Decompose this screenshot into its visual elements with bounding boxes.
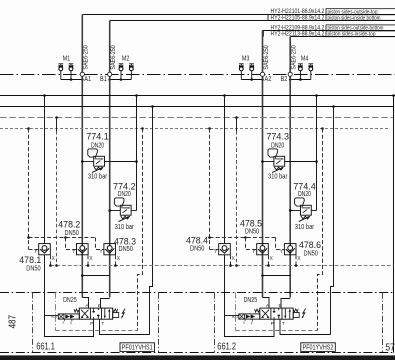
logic valve 478.2 label — [58, 219, 80, 237]
relief valve 774.3 pilot line — [268, 149, 278, 159]
cylinder port A2 — [260, 72, 271, 83]
cylinder lines merge left — [81, 274, 110, 277]
line A1 vertical — [81, 76, 83, 297]
test point M1b — [69, 64, 74, 80]
directional valve 661.2 crossed arrows cell — [261, 310, 269, 318]
destination flag piston sides-outside-top — [326, 9, 395, 16]
relief valve 774.1 label — [86, 131, 109, 150]
svg-text:B: B — [98, 303, 101, 308]
test point M1a — [59, 64, 64, 80]
directional valve 661.2 parallel arrows cell — [284, 309, 291, 319]
svg-text:310 bar: 310 bar — [115, 222, 135, 231]
station 661.1 T return run — [100, 319, 150, 334]
directional valve 661.2 main body — [260, 308, 293, 319]
relief valve 774.4 pilot line — [295, 198, 305, 208]
logic valve 478.4 label — [186, 234, 208, 252]
svg-text:DN20: DN20 — [91, 140, 104, 149]
logic valve 478.2 port labels — [72, 249, 93, 262]
relief return riser right — [316, 96, 318, 211]
station 661.2 A port link — [263, 298, 270, 309]
pilot valve of 661.2 — [239, 314, 260, 319]
tank drop to station 661.2 — [331, 107, 334, 335]
directional valve 661.2 closed centre cell — [273, 309, 280, 319]
manifold dashed box 661.2 — [236, 293, 318, 331]
svg-text:y: y — [70, 320, 72, 325]
junction dots on headers — [27, 94, 395, 130]
directional valve 661.1 port letters — [85, 303, 104, 326]
svg-text:B: B — [279, 303, 282, 308]
svg-text:piston sides-inside-top: piston sides-inside-top — [328, 32, 376, 38]
cylinder lines merge right — [261, 274, 290, 277]
pilot drop Y right — [209, 129, 211, 250]
svg-text:x: x — [63, 320, 65, 325]
svg-text:310 bar: 310 bar — [268, 172, 288, 181]
station 661.2 pilot feed — [225, 315, 239, 317]
svg-text:DN50: DN50 — [26, 263, 40, 272]
pilot valve of 661.1 — [58, 314, 79, 319]
svg-text:y: y — [251, 320, 253, 325]
svg-text:SAE6-250: SAE6-250 — [83, 45, 90, 70]
pilot X collector dashed — [49, 255, 393, 267]
logic valve 478.3 port labels — [99, 249, 120, 262]
valve tag PF01YVHS1 — [120, 343, 155, 352]
gauge bus at A2 — [241, 78, 264, 81]
hose SAE6-250 A1 riser — [82, 15, 89, 73]
pilot drop to station 661.2 — [318, 129, 323, 331]
enclosure 661.1 left edge — [32, 293, 34, 353]
relief valve 774.2 body — [120, 205, 131, 215]
station 661.1 P supply run — [45, 255, 94, 337]
relief line B1 774.2 — [108, 209, 136, 212]
test point M4a — [298, 64, 303, 80]
tank header line — [0, 106, 394, 108]
relief valve 774.4 label — [293, 180, 316, 198]
line B2 vertical — [289, 76, 291, 297]
destination flag piston sides-outside-bottom — [326, 25, 395, 32]
svg-text:SAE6-250: SAE6-250 — [110, 45, 117, 70]
svg-text:A2: A2 — [265, 74, 272, 83]
svg-text:487: 487 — [7, 315, 18, 329]
svg-text:HY2-H22109-88.9x14.2: HY2-H22109-88.9x14.2 — [271, 26, 325, 32]
pilot drop to station 661.1 — [138, 129, 143, 331]
pilot drop Y left — [28, 129, 30, 250]
svg-text:P: P — [90, 321, 93, 326]
svg-text:310 bar: 310 bar — [295, 222, 315, 231]
test point M3a — [239, 64, 244, 80]
svg-text:M4: M4 — [301, 55, 308, 62]
svg-text:A1: A1 — [84, 74, 91, 83]
svg-text:DN20: DN20 — [118, 189, 131, 198]
svg-text:DN20: DN20 — [271, 140, 284, 149]
relief line A1 774.1 — [81, 160, 138, 163]
directional valve 661.2 solenoid box — [293, 313, 299, 318]
right edge line to next sheet — [393, 96, 395, 353]
enclosure 661.2 right edge — [382, 293, 384, 353]
directional valve 661.1 electric lightning symbol — [121, 309, 125, 319]
station 661.1 B port link — [101, 299, 110, 309]
svg-text:HY2-H22113-88.9x14.2: HY2-H22113-88.9x14.2 — [271, 32, 325, 38]
gauge bus at A1 — [61, 78, 84, 81]
pilot drop X right — [236, 118, 238, 266]
logic valve 478.3 label — [114, 235, 136, 253]
supply branch to logic valve 478.4 — [224, 96, 226, 244]
relief line B2 774.4 — [289, 209, 317, 212]
logic valve 478.5 body — [257, 244, 269, 255]
top pipe line to piston sides-outside-top — [82, 14, 395, 16]
relief valve 774.4 spring — [299, 216, 311, 221]
logic valve 478.6 label — [299, 239, 321, 257]
pilot header X dashed — [0, 117, 394, 119]
relief return riser left — [136, 96, 138, 211]
svg-text:a,b: a,b — [51, 313, 58, 318]
svg-text:SAE6-250: SAE6-250 — [263, 45, 270, 70]
directional valve 661.2 port letters — [266, 303, 285, 326]
hose SAE6-250 B2 riser — [290, 37, 297, 73]
logic valve 478.3 body — [104, 244, 116, 255]
svg-text:DN50: DN50 — [190, 244, 204, 253]
relief line A2 774.3 — [261, 160, 318, 163]
relief valve 774.3 label — [266, 131, 289, 150]
hose SAE6-250 B1 riser — [110, 21, 117, 73]
svg-text:DN25: DN25 — [244, 295, 258, 304]
test point M4b — [309, 64, 314, 80]
relief valve 774.2 spring — [119, 216, 131, 221]
directional valve 661.1 right spring — [113, 309, 118, 312]
tank drop to station 661.1 — [150, 107, 153, 335]
pilot valve 661.1 drain stubs — [63, 319, 73, 325]
station 661.1 pilot feed — [45, 315, 59, 317]
svg-text:DN25: DN25 — [63, 295, 77, 304]
station boundary centerline — [0, 292, 395, 294]
hose SAE6-250 A2 riser — [263, 31, 270, 73]
svg-text:310 bar: 310 bar — [88, 172, 108, 181]
test point M3b — [249, 64, 254, 80]
svg-text:M2: M2 — [122, 55, 129, 62]
pilot header Y dashed — [0, 128, 390, 130]
cylinder port B1 — [100, 72, 112, 83]
directional valve 661.2 left spring — [255, 309, 260, 312]
machine boundary centerline — [0, 74, 395, 76]
relief valve 774.2 label — [113, 180, 136, 198]
test point M2b — [129, 64, 134, 80]
pilot drop X left — [56, 118, 58, 266]
svg-text:DN50: DN50 — [304, 249, 318, 258]
top pipe line to piston sides-outside-bottom — [263, 30, 395, 32]
directional valve 661.1 left spring — [74, 309, 79, 312]
directional valve 661.1 solenoid box — [113, 313, 119, 318]
enclosure 661.2 left edge — [214, 293, 216, 353]
station 661.1 A port link — [82, 298, 88, 309]
enclosure bottom centerline — [0, 352, 395, 354]
directional valve 661.1 crossed arrows cell — [81, 310, 89, 318]
svg-text:M1: M1 — [63, 55, 70, 62]
svg-text:x: x — [243, 320, 245, 325]
logic valve 478.5 port labels — [252, 249, 273, 262]
enclosure 661.1 right edge — [158, 293, 160, 353]
cylinder port B2 — [281, 72, 293, 83]
logic valve 478.1 label — [19, 254, 41, 272]
logic valve 478.1 port labels — [34, 249, 55, 262]
svg-text:DN50: DN50 — [245, 227, 259, 236]
logic valve 478.4 body — [219, 244, 231, 255]
svg-text:T: T — [101, 321, 104, 326]
svg-text:661.2: 661.2 — [217, 342, 236, 353]
cylinder port A1 — [80, 72, 91, 83]
relief valve 774.1 pilot line — [88, 149, 98, 159]
svg-text:M3: M3 — [242, 55, 249, 62]
svg-text:P: P — [271, 321, 274, 326]
svg-text:DN50: DN50 — [119, 244, 133, 253]
svg-text:HY2-H22101-88.9x14.2: HY2-H22101-88.9x14.2 — [271, 9, 325, 15]
top pipe line to piston sides-inside-top — [290, 36, 395, 38]
logic valve 478.6 body — [284, 244, 296, 255]
directional valve 661.2 electric lightning symbol — [302, 309, 306, 319]
svg-text:B1: B1 — [100, 74, 107, 83]
svg-text:PF01YVHS1: PF01YVHS1 — [122, 343, 153, 352]
pilot Y line right group — [208, 236, 284, 249]
svg-text:661.1: 661.1 — [36, 342, 55, 353]
svg-text:57: 57 — [385, 342, 395, 353]
manifold dashed box 661.1 — [56, 293, 138, 331]
sheet border bar — [0, 355, 395, 360]
pilot valve 661.2 drain stubs — [243, 319, 253, 325]
relief valve 774.3 spring — [272, 167, 284, 172]
hose id label HY2-H22113 — [263, 31, 325, 38]
logic valve 478.6 port labels — [280, 249, 301, 262]
gauge bus at B2 — [289, 78, 311, 81]
relief valve 774.4 body — [301, 205, 312, 215]
pilot Y line left group — [27, 236, 104, 249]
directional valve 661.1 closed centre cell — [92, 309, 99, 319]
svg-text:DN20: DN20 — [298, 189, 311, 198]
station 661.2 T return run — [280, 319, 331, 334]
relief valve 774.1 body — [94, 156, 105, 166]
line B1 vertical — [109, 76, 111, 297]
valve tag PF01YVHS2 — [301, 343, 336, 352]
station 661.2 B port link — [281, 299, 290, 309]
logic valve 478.1 body — [39, 244, 51, 255]
logic valve 478.4 port labels — [214, 249, 235, 262]
svg-text:PF01YVHS2: PF01YVHS2 — [303, 343, 334, 352]
svg-text:SAE6-250: SAE6-250 — [291, 45, 298, 70]
destination flag piston sides-inside bottom — [326, 15, 395, 22]
svg-text:DN50: DN50 — [65, 228, 79, 237]
supply branch to logic valve 478.1 — [44, 96, 46, 244]
directional valve 661.1 parallel arrows cell — [104, 309, 111, 319]
directional valve 661.1 main body — [79, 308, 112, 319]
svg-text:piston sides-inside bottom: piston sides-inside bottom — [328, 16, 381, 22]
svg-text:T: T — [282, 321, 285, 326]
relief valve 774.1 spring — [92, 167, 104, 172]
return header line — [0, 95, 395, 97]
directional valve 661.2 right spring — [293, 309, 298, 312]
destination flag piston sides-inside-top — [326, 31, 395, 38]
gauge bus at B1 — [108, 78, 131, 81]
relief valve 774.3 body — [274, 156, 285, 166]
hose id label HY2-H22105 — [268, 15, 325, 22]
relief valve 774.2 pilot line — [114, 198, 124, 208]
svg-text:B2: B2 — [281, 74, 288, 83]
svg-text:HY2-H22105-88.9x14.2: HY2-H22105-88.9x14.2 — [271, 16, 325, 22]
station 661.2 P supply run — [225, 255, 275, 337]
logic valve 478.2 body — [77, 244, 89, 255]
logic valve 478.5 label — [240, 217, 262, 235]
line A2 vertical — [262, 76, 264, 297]
test point M2a — [119, 64, 124, 80]
top pipe line to piston sides-inside bottom — [110, 20, 395, 22]
